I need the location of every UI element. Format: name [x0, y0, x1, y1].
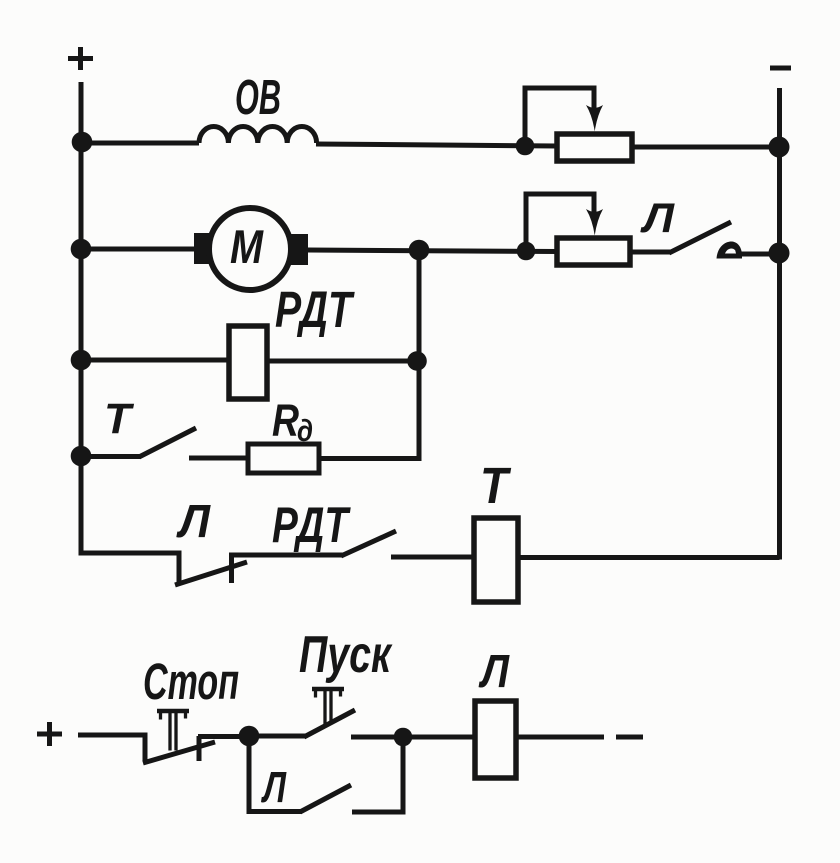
wire row2 left segment: [81, 247, 196, 252]
svg-text:Л: Л: [478, 645, 510, 697]
wire row5 from left rail with step: [81, 553, 179, 583]
coil T body: [474, 518, 518, 602]
node K (bottom node 1): [239, 726, 260, 747]
pushbutton Stop step: [143, 733, 148, 762]
rheostat R1 body: [557, 134, 632, 161]
wire row2 middle segment: [308, 250, 557, 252]
node B (row1 rheostat tap): [516, 137, 535, 156]
node F (row2 rheostat tap): [517, 242, 536, 261]
aux contact L blade: [300, 785, 351, 812]
pushbutton Stop fixed tick: [197, 736, 202, 761]
wire coil T to right rail: [518, 555, 780, 560]
wire node1 to Pusk: [249, 734, 306, 739]
wire row1 left segment: [81, 141, 199, 146]
wire node2 to coil L: [403, 735, 475, 740]
wire aux loop right segment: [352, 737, 403, 812]
rheostat R2 body: [557, 238, 630, 265]
wire row1 middle segment: [316, 144, 557, 146]
svg-text:д: д: [297, 413, 313, 448]
wire row4 to resistor Rd: [189, 456, 248, 461]
svg-text:РДТ: РДТ: [275, 281, 355, 338]
pushbutton Stop actuator: [157, 709, 189, 751]
contact RDT blade: [341, 531, 396, 556]
wire Pusk to node 2: [351, 735, 403, 740]
svg-text:Л: Л: [176, 495, 211, 547]
pushbutton Stop blade: [143, 742, 215, 763]
wire hook to right rail: [740, 252, 779, 257]
terminal - (bottom right dash): [616, 735, 643, 740]
switch T blade: [139, 428, 196, 457]
svg-text:Т: Т: [104, 395, 135, 443]
motor M: [194, 208, 308, 290]
node G (row2 right): [769, 243, 790, 264]
svg-text:М: М: [230, 220, 264, 273]
wire coil L to minus: [516, 735, 604, 740]
svg-text:R: R: [272, 395, 299, 446]
rheostat R2 bypass wire with arrow: [526, 194, 603, 251]
node C (row1 right): [769, 137, 790, 158]
rheostat R1 bypass wire with arrow: [525, 88, 603, 146]
wire row4 left segment: [81, 454, 141, 459]
wire row3 left segment: [81, 358, 229, 363]
node J (row4 left): [71, 446, 92, 467]
wire row3 right segment: [267, 359, 419, 364]
switch L blade: [669, 222, 731, 253]
wire Stop to node 1: [198, 734, 252, 739]
svg-text:РДТ: РДТ: [272, 497, 351, 553]
node A (row1 left): [72, 132, 93, 153]
svg-text:Пуск: Пуск: [299, 626, 393, 684]
switch L fixed contact hook: [717, 241, 743, 258]
wire right rail: [777, 88, 782, 560]
wire bottom row left segment: [78, 733, 145, 738]
wire middle vertical rail: [319, 250, 419, 459]
node L (bottom node 2): [394, 728, 413, 747]
svg-text:Л: Л: [640, 194, 675, 241]
terminal - (top right): [770, 66, 791, 71]
terminal + (top left): [68, 47, 93, 70]
node E (row2 middle): [409, 240, 430, 261]
resistor Rd body: [248, 444, 319, 473]
pushbutton Pusk blade: [304, 710, 355, 737]
wire left rail: [79, 82, 84, 556]
wire aux loop left vertical: [249, 736, 302, 812]
svg-text:ОВ: ОВ: [235, 71, 281, 125]
node D (row2 left): [71, 239, 92, 260]
wire row5 to coil T: [391, 555, 474, 560]
contact L fixed tick: [229, 556, 234, 583]
wire row1 right segment: [632, 145, 779, 150]
svg-text:Т: Т: [480, 457, 511, 514]
svg-text:Стоп: Стоп: [143, 653, 239, 710]
coil L body: [475, 701, 516, 778]
wire row5 middle segment: [229, 553, 343, 558]
node H (row3 left): [71, 350, 92, 371]
node I (row3 right): [407, 351, 427, 371]
pushbutton Pusk actuator: [312, 687, 344, 724]
contact L (break) blade: [175, 562, 247, 585]
wire rheostat R2 to switch L: [630, 250, 671, 255]
svg-text:Л: Л: [261, 763, 287, 812]
terminal + (bottom left): [37, 722, 62, 746]
relay coil RDT: [229, 326, 267, 399]
inductor OV: [199, 127, 317, 143]
